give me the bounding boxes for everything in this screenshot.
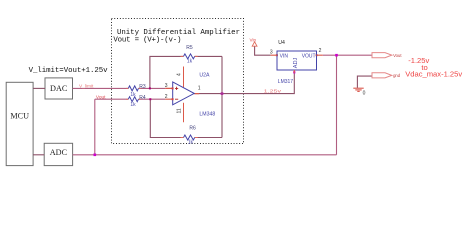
svg-text:3: 3	[270, 49, 273, 55]
svg-text:Vout: Vout	[393, 53, 402, 58]
svg-text:1.25v: 1.25v	[264, 89, 282, 95]
svg-text:Vout: Vout	[96, 95, 106, 101]
svg-text:gnd: gnd	[393, 73, 401, 78]
svg-text:Vdac_max-1.25v: Vdac_max-1.25v	[405, 70, 462, 79]
svg-text:LM348: LM348	[199, 112, 215, 118]
svg-text:R4: R4	[139, 95, 146, 101]
svg-text:R6: R6	[189, 126, 196, 132]
svg-text:V_limit: V_limit	[79, 83, 94, 89]
svg-text:U4: U4	[278, 40, 285, 46]
svg-text:3: 3	[165, 83, 168, 89]
svg-text:ADC: ADC	[50, 148, 68, 157]
svg-text:MCU: MCU	[10, 111, 29, 120]
svg-text:1k: 1k	[130, 102, 136, 108]
svg-text:DAC: DAC	[50, 84, 68, 93]
svg-text:2: 2	[319, 48, 322, 54]
svg-text:R3: R3	[139, 84, 146, 90]
svg-text:11: 11	[177, 108, 183, 113]
svg-text:V_limit=Vout+1.25v: V_limit=Vout+1.25v	[29, 67, 109, 75]
svg-text:LM317: LM317	[278, 79, 294, 85]
svg-text:1k: 1k	[188, 140, 194, 146]
svg-text:Vout = (V+)-(v-): Vout = (V+)-(v-)	[113, 37, 181, 45]
svg-text:VOUT: VOUT	[302, 53, 316, 59]
svg-text:R5: R5	[186, 45, 193, 51]
svg-text:4: 4	[177, 73, 183, 76]
svg-text:ADJ: ADJ	[293, 57, 299, 68]
svg-text:1: 1	[198, 86, 201, 92]
svg-text:Vin: Vin	[250, 38, 257, 43]
svg-text:1k: 1k	[187, 58, 193, 64]
svg-text:1k: 1k	[130, 92, 136, 98]
svg-text:U2A: U2A	[199, 73, 210, 79]
svg-text:2: 2	[165, 94, 168, 100]
svg-text:0: 0	[363, 91, 366, 97]
svg-text:VIN: VIN	[280, 53, 289, 59]
